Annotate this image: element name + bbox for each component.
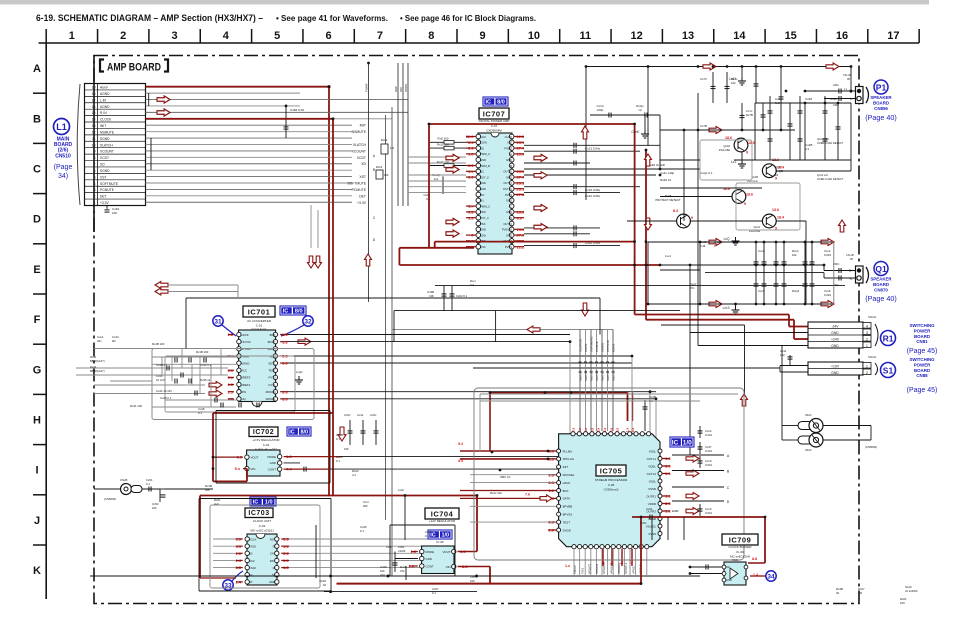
wire vertical bus AIN — [402, 63, 404, 206]
svg-text:Rx14: Rx14 — [376, 165, 383, 169]
svg-text:CLOCK BUFFER: CLOCK BUFFER — [728, 545, 752, 549]
svg-text:Cx43 0.1: Cx43 0.1 — [160, 396, 172, 400]
svg-text:A: A — [33, 63, 41, 75]
IC705 right pins — [658, 449, 662, 453]
IC701 body — [239, 330, 276, 402]
svg-text:+24V: +24V — [831, 338, 840, 342]
svg-text:DVDD: DVDD — [563, 528, 571, 532]
left harness into IC705 — [460, 450, 548, 452]
svg-text:SD: SD — [480, 146, 484, 150]
svg-text:4x0: 4x0 — [214, 502, 219, 506]
svg-text:CXD9xxxQ: CXD9xxxQ — [604, 488, 620, 492]
IC707 left resistor stubs — [430, 141, 466, 143]
svg-text:E: E — [33, 264, 40, 276]
cap stub at harness right — [644, 400, 646, 431]
IC709 body — [724, 562, 746, 585]
connector S1 designation — [881, 363, 896, 378]
svg-text:Rx4x 4x0: Rx4x 4x0 — [490, 491, 502, 495]
svg-text:Lx0x: Lx0x — [398, 488, 405, 492]
harness resistor ticks — [579, 361, 582, 363]
svg-text:4: 4 — [223, 30, 230, 42]
AMP board dash-dot boundary — [94, 56, 859, 604]
svg-text:XPOUT2: XPOUT2 — [589, 563, 592, 574]
connector CN510 (L1) body — [85, 84, 146, 206]
svg-text:PLLMA: PLLMA — [563, 449, 573, 453]
svg-text:DET: DET — [100, 195, 107, 199]
svg-text:CN870: CN870 — [874, 287, 888, 292]
svg-text:18.6: 18.6 — [746, 193, 753, 197]
svg-text:10F: 10F — [470, 579, 475, 583]
svg-text:9: 9 — [480, 30, 486, 42]
svg-text:VOUT: VOUT — [442, 550, 450, 554]
mesh vertical stubs — [161, 357, 163, 375]
svg-text:18.4: 18.4 — [777, 216, 784, 220]
svg-text:RxQ2: RxQ2 — [792, 289, 800, 293]
svg-text:8.8: 8.8 — [752, 557, 757, 561]
svg-text:FS02: FS02 — [249, 566, 256, 570]
IC702 pins — [245, 455, 249, 459]
svg-text:VSSR: VSSR — [648, 487, 656, 491]
svg-text:100: 100 — [900, 601, 905, 605]
svg-text:LIN: LIN — [241, 397, 246, 401]
svg-text:OUT_0: OUT_0 — [480, 216, 489, 220]
svg-text:LxQ1: LxQ1 — [296, 370, 303, 374]
svg-text:Cx5x: Cx5x — [344, 413, 351, 417]
svg-text:Cx22 0.06x: Cx22 0.06x — [585, 194, 601, 198]
svg-text:OVER LOAD DETECT: OVER LOAD DETECT — [817, 141, 844, 145]
svg-text:0.001: 0.001 — [705, 433, 712, 437]
svg-text:COIN: COIN — [480, 141, 487, 145]
svg-text:100: 100 — [384, 173, 389, 177]
svg-text:0.022: 0.022 — [824, 253, 831, 257]
up arrow mid — [365, 254, 372, 266]
svg-text:5.x: 5.x — [234, 466, 240, 471]
svg-text:(Page 45): (Page 45) — [907, 348, 938, 355]
IC703 right wires — [289, 538, 430, 540]
svg-text:Cx70: Cx70 — [700, 77, 707, 81]
svg-text:18.4: 18.4 — [777, 166, 784, 170]
svg-text:GND: GND — [426, 557, 432, 561]
svg-text:DI: DI — [273, 566, 276, 570]
long vertical wire right of IC705 — [689, 265, 691, 333]
svg-text:ATRM: ATRM — [404, 84, 408, 92]
svg-text:PWM_C: PWM_C — [480, 204, 490, 208]
svg-text:CN856: CN856 — [874, 106, 888, 111]
grid top ruler — [39, 42, 920, 44]
IC703 designation plate — [250, 497, 276, 506]
svg-text:NSMUTE: NSMUTE — [352, 130, 367, 134]
svg-text:CONT: CONT — [268, 467, 276, 471]
transistor Q904 — [732, 190, 746, 204]
svg-text:LRCK: LRCK — [241, 333, 249, 337]
svg-text:1W: 1W — [390, 146, 394, 150]
svg-text:VREF1: VREF1 — [241, 383, 251, 387]
svg-text:FVT0: FVT0 — [269, 376, 276, 380]
transistor Q905 — [762, 214, 776, 228]
svg-text:13.6: 13.6 — [772, 208, 779, 212]
svg-text:0.1: 0.1 — [432, 591, 436, 595]
wires to P1 — [805, 90, 856, 92]
wire bottom return — [324, 591, 477, 593]
svg-text:CxxK: CxxK — [631, 130, 639, 134]
svg-text:AC CONVERTER: AC CONVERTER — [247, 319, 272, 323]
connector S1 body — [808, 362, 863, 375]
signal return wire with left arrow — [392, 329, 613, 331]
ground near C bank — [644, 130, 646, 134]
svg-text:10F: 10F — [152, 506, 157, 510]
svg-text:10F: 10F — [112, 211, 117, 215]
IC707 right side wires — [524, 144, 660, 146]
svg-text:1.x: 1.x — [565, 564, 570, 568]
transistor Q901 protect — [677, 214, 691, 228]
svg-text:SOFTMUTE1: SOFTMUTE1 — [590, 336, 594, 352]
svg-text:Rx60 12: Rx60 12 — [660, 178, 672, 182]
svg-text:GND: GND — [831, 331, 839, 335]
svg-text:INIT: INIT — [563, 465, 569, 469]
svg-text:8.3: 8.3 — [673, 209, 678, 213]
svg-text:6: 6 — [325, 30, 331, 42]
svg-text:DI: DI — [273, 544, 276, 548]
svg-text:INIT: INIT — [100, 124, 106, 128]
svg-text:XPOUTL1: XPOUTL1 — [625, 562, 628, 574]
svg-text:IC705: IC705 — [600, 467, 623, 476]
svg-text:10F: 10F — [344, 447, 349, 451]
cap at S1 — [789, 355, 791, 366]
svg-text:OUTL2: OUTL2 — [647, 472, 657, 476]
wire bus rows from CN510 — [146, 92, 301, 94]
arrows near CN510 input — [157, 96, 170, 103]
svg-text:4: 4 — [866, 324, 868, 328]
svg-text:VDDL: VDDL — [648, 464, 656, 468]
black boxes around IC703 — [199, 498, 331, 500]
resistor Rx12 — [381, 144, 388, 154]
IC701 output wires — [288, 334, 570, 336]
svg-text:9: 9 — [691, 216, 693, 220]
svg-text:XCDT: XCDT — [100, 156, 109, 160]
svg-text:DIGITAL POWER AMP: DIGITAL POWER AMP — [479, 119, 510, 123]
svg-text:(Page: (Page — [54, 164, 73, 171]
svg-text:13: 13 — [682, 30, 694, 42]
svg-text:(Page 40): (Page 40) — [865, 113, 897, 122]
svg-text:INIT: INIT — [360, 124, 366, 128]
svg-text:Lx13: Lx13 — [723, 306, 730, 310]
svg-text:Cx48 4x 3x8: Cx48 4x 3x8 — [648, 163, 665, 167]
svg-text:PWMF: PWMF — [365, 83, 369, 92]
svg-text:2: 2 — [866, 337, 868, 341]
svg-text:CNxB: CNxB — [120, 478, 127, 482]
svg-text:XD: XD — [361, 162, 366, 166]
IC702 right wires — [284, 456, 340, 458]
AMP BOARD label — [100, 60, 104, 72]
svg-text:C-02: C-02 — [263, 443, 270, 447]
svg-text:LxQ: LxQ — [724, 237, 730, 241]
svg-text:1W: 1W — [858, 591, 863, 595]
svg-text:OUT_0: OUT_0 — [503, 222, 512, 226]
svg-text:OUT_0: OUT_0 — [503, 170, 512, 174]
IC701 output arrow — [298, 338, 311, 345]
svg-text:Cx11: Cx11 — [357, 413, 364, 417]
svg-text:S2: S2 — [249, 552, 253, 556]
svg-text:OUT_0: OUT_0 — [503, 181, 512, 185]
svg-text:CN81: CN81 — [916, 339, 928, 344]
svg-text:CXD9634M: CXD9634M — [486, 129, 502, 133]
svg-text:CLKO: CLKO — [505, 135, 512, 139]
cap after jack — [142, 488, 160, 490]
down arrows into IC701 box — [308, 256, 315, 268]
svg-text:VDDR: VDDR — [648, 502, 656, 506]
svg-text:GND: GND — [831, 371, 839, 375]
svg-text:XD: XD — [100, 163, 105, 167]
IC703 body — [247, 534, 277, 585]
svg-text:5: 5 — [274, 30, 280, 42]
red feeds to IC705 left pins — [489, 393, 491, 452]
svg-text:Rx1B 100: Rx1B 100 — [196, 350, 209, 354]
resistor bracket rows 7-9 — [442, 176, 444, 194]
right area wire grid — [647, 67, 649, 147]
wire CLOCK (dark red) from CN510 — [146, 118, 334, 120]
svg-text:VOUT: VOUT — [251, 455, 259, 459]
svg-text:IC701: IC701 — [248, 308, 271, 317]
svg-text:CK1: CK1 — [270, 552, 276, 556]
svg-text:• See page 46 for IC Block Dia: • See page 46 for IC Block Diagrams. — [400, 14, 536, 23]
svg-text:GND: GND — [480, 187, 486, 191]
svg-text:GND: GND — [506, 158, 512, 162]
wire vertical DATA links — [649, 392, 651, 507]
svg-text:MODE: MODE — [267, 455, 276, 459]
svg-text:RxD 100: RxD 100 — [438, 137, 449, 141]
svg-text:GND: GND — [270, 461, 276, 465]
svg-text:6.4k: 6.4k — [700, 244, 706, 248]
svg-text:KDV00: KDV00 — [612, 343, 616, 352]
IC707 input arrows — [446, 154, 459, 161]
svg-text:GND: GND — [480, 158, 486, 162]
IC707 pins — [476, 134, 481, 139]
svg-text:SWITCHING: SWITCHING — [909, 323, 935, 328]
IC705 body — [559, 434, 660, 547]
svg-text:CLOCK: CLOCK — [100, 118, 112, 122]
svg-text:2: 2 — [866, 371, 868, 375]
wire vertical LRCK link — [569, 342, 571, 483]
svg-text:FMCK0: FMCK0 — [574, 565, 577, 574]
resistor Rx14 — [376, 170, 383, 179]
svg-text:ExBF: ExBF — [672, 509, 679, 513]
svg-text:Rx1B 100: Rx1B 100 — [152, 342, 165, 346]
svg-text:47k: 47k — [400, 569, 405, 573]
caps bank above IC707 — [586, 66, 851, 68]
svg-text:Rx41 100: Rx41 100 — [130, 404, 142, 408]
svg-text:CN-xD: CN-xD — [843, 73, 851, 77]
svg-text:A: A — [510, 152, 512, 156]
svg-text:34): 34) — [58, 173, 68, 180]
bottom mesh near IC709 — [390, 524, 455, 526]
IC705 output arrows — [686, 455, 699, 462]
svg-text:3P: 3P — [847, 77, 850, 81]
svg-text:x0.1x2W0: x0.1x2W0 — [905, 589, 918, 593]
svg-text:POWER: POWER — [914, 362, 931, 367]
svg-text:10k: 10k — [731, 81, 736, 85]
ground top rail — [741, 67, 743, 78]
wire vertical bus ATRM — [407, 63, 409, 206]
svg-text:L-: L- — [850, 97, 853, 101]
svg-text:1: 1 — [69, 30, 75, 42]
transistor Q903 — [762, 164, 776, 178]
svg-text:GND: GND — [480, 181, 486, 185]
wire AGND join — [148, 93, 150, 106]
IC705 output wires to letters — [672, 454, 724, 456]
svg-text:CNx4x: CNx4x — [868, 315, 877, 319]
svg-text:VCLK: VCLK — [249, 537, 257, 541]
svg-text:Rx35 1k: Rx35 1k — [200, 378, 211, 382]
svg-text:HPVDD1: HPVDD1 — [596, 563, 599, 574]
svg-text:4x8: 4x8 — [205, 488, 210, 492]
svg-text:PWM_A: PWM_A — [480, 152, 490, 156]
page top scan bar — [0, 0, 929, 5]
svg-text:ST: ST — [249, 580, 253, 584]
svg-text:SDT1: SDT1 — [268, 361, 276, 365]
caps bottom bank (speaker low-pass) — [755, 242, 757, 304]
svg-text:Cx48: Cx48 — [805, 97, 812, 101]
svg-text:XDVDD: XDVDD — [601, 343, 605, 352]
svg-text:1/0: 1/0 — [441, 533, 449, 539]
svg-text:9: 9 — [744, 202, 746, 206]
svg-text:F: F — [34, 314, 41, 326]
svg-text:GND: GND — [726, 578, 732, 582]
svg-text:NC: NC — [726, 565, 730, 569]
svg-text:34: 34 — [767, 574, 775, 581]
svg-text:H: H — [33, 415, 41, 427]
svg-text:+3.3V: +3.3V — [100, 201, 110, 205]
svg-text:L IN: L IN — [100, 98, 107, 102]
test point 31 — [213, 316, 223, 326]
wires left of IC703 — [213, 538, 236, 540]
wire stubs from bus to IC707 — [408, 156, 466, 158]
svg-text:12: 12 — [631, 30, 643, 42]
svg-text:QxG1 x03: QxG1 x03 — [817, 137, 829, 141]
svg-text:HPVDDH: HPVDDH — [618, 563, 621, 574]
svg-text:x3x0F: x3x0F — [398, 549, 406, 553]
svg-text:BOARD: BOARD — [873, 282, 889, 287]
svg-text:Cx4x x40p: Cx4x x40p — [660, 171, 675, 175]
left arrow on return wire — [527, 326, 540, 333]
svg-text:D: D — [510, 216, 512, 220]
red bottom stubs IC705 — [602, 549, 604, 566]
svg-text:MCKSEL: MCKSEL — [563, 473, 575, 477]
svg-text:MON00: MON00 — [266, 390, 276, 394]
box around detect transistors — [736, 183, 800, 230]
box around IC701 region — [186, 297, 600, 299]
ground bus bottom — [90, 575, 700, 577]
svg-text:33vD: 33vD — [805, 413, 812, 417]
svg-text:M1: M1 — [480, 199, 484, 203]
down arrow right of IC702 — [338, 427, 346, 441]
svg-text:K: K — [33, 565, 41, 577]
AMP board left border solid segment — [93, 56, 95, 233]
svg-text:GND: GND — [831, 344, 839, 348]
up arrow near box — [741, 394, 748, 406]
caps above IC702 — [349, 420, 351, 445]
svg-text:8: 8 — [428, 30, 434, 42]
svg-text:CLKI: CLKI — [480, 135, 486, 139]
svg-text:10: 10 — [528, 30, 540, 42]
svg-text:IC-09: IC-09 — [736, 550, 744, 554]
svg-text:FSYNC: FSYNC — [241, 340, 251, 344]
capacitor under CN510 — [105, 209, 110, 211]
IC702 body — [247, 450, 280, 476]
svg-text:B8MD(2x47): B8MD(2x47) — [90, 359, 105, 363]
svg-text:Rx43: Rx43 — [90, 365, 97, 369]
svg-text:Cx13 0.04x: Cx13 0.04x — [585, 147, 601, 151]
more mesh rows — [94, 348, 152, 350]
svg-text:CN-xB: CN-xB — [846, 253, 854, 257]
svg-text:33vD: 33vD — [805, 448, 812, 452]
svg-text:Cx62 0.1: Cx62 0.1 — [456, 294, 468, 298]
wire vertical BCK link — [631, 356, 633, 475]
svg-text:SPEAKER: SPEAKER — [870, 95, 892, 100]
svg-text:GND: GND — [506, 233, 512, 237]
svg-text:OUTR1: OUTR1 — [646, 494, 656, 498]
caps top bank near P1 — [712, 72, 714, 103]
svg-text:15: 15 — [785, 30, 797, 42]
svg-text:Cx7B: Cx7B — [700, 124, 707, 128]
svg-text:CMx: CMx — [833, 83, 839, 87]
svg-text:(Page 45): (Page 45) — [907, 387, 938, 394]
svg-text:BOARD: BOARD — [873, 100, 889, 105]
svg-text:32: 32 — [836, 591, 840, 595]
mid horizontal rails right power — [660, 187, 762, 189]
svg-text:OBC 0.1: OBC 0.1 — [500, 475, 511, 479]
svg-text:1: 1 — [866, 344, 868, 348]
red arrow on top loop — [582, 126, 589, 139]
ground filter rail upper — [735, 237, 737, 242]
wire vertical center-left pair — [385, 115, 387, 520]
svg-text:Rx12: Rx12 — [381, 138, 388, 142]
svg-text:MODE: MODE — [426, 550, 435, 554]
svg-text:3: 3 — [171, 30, 177, 42]
svg-text:0.001: 0.001 — [705, 449, 712, 453]
svg-text:GND: GND — [269, 580, 275, 584]
svg-text:10F: 10F — [429, 294, 434, 298]
svg-text:5.x: 5.x — [631, 428, 635, 433]
junction dots — [647, 65, 650, 68]
caps in analog mesh — [174, 358, 176, 363]
svg-text:CN510: CN510 — [55, 153, 71, 159]
svg-text:Rx42: Rx42 — [90, 355, 97, 359]
svg-text:PCMUTE: PCMUTE — [352, 188, 367, 192]
svg-text:0.1: 0.1 — [425, 534, 429, 538]
svg-text:Cxx5: Cxx5 — [758, 289, 765, 293]
svg-text:GND: GND — [506, 175, 512, 179]
wire vertical bus PWMF — [368, 63, 370, 302]
svg-text:+2.5V REGULATOR: +2.5V REGULATOR — [252, 438, 280, 442]
svg-text:(Page 40): (Page 40) — [865, 294, 897, 303]
svg-text:AMP BOARD: AMP BOARD — [107, 62, 161, 74]
svg-text:IC: IC — [283, 309, 289, 315]
svg-text:IC-06: IC-06 — [436, 540, 444, 544]
svg-text:DC: DC — [480, 170, 484, 174]
svg-text:D: D — [33, 214, 41, 226]
svg-text:Rx11 100: Rx11 100 — [437, 143, 449, 147]
svg-text:MON01: MON01 — [266, 397, 276, 401]
speaker connector Q1 body — [856, 266, 864, 283]
svg-text:8.5: 8.5 — [458, 459, 463, 463]
svg-text:31: 31 — [214, 319, 222, 326]
connector CN510 bracket — [77, 84, 80, 205]
grey box around IC705 cluster — [474, 388, 744, 560]
svg-text:CK2: CK2 — [249, 559, 255, 563]
svg-text:2P: 2P — [850, 257, 853, 261]
svg-text:GND: GND — [480, 228, 486, 232]
svg-text:OSC: OSC — [480, 245, 486, 249]
